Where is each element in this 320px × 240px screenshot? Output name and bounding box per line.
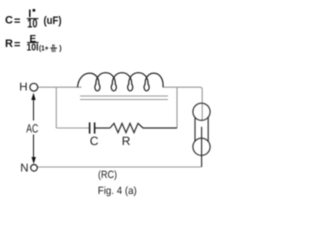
svg-text:(RC): (RC) — [98, 169, 117, 181]
svg-text:(uF): (uF) — [44, 15, 62, 27]
svg-text:=: = — [14, 39, 20, 51]
svg-text:10I: 10I — [27, 42, 39, 54]
svg-text:C: C — [90, 134, 99, 148]
svg-text:AC: AC — [26, 122, 38, 136]
svg-text:Fig. 4 (a): Fig. 4 (a) — [98, 185, 137, 197]
svg-text:50: 50 — [51, 48, 56, 53]
svg-text:=: = — [14, 15, 20, 27]
svg-text:10: 10 — [27, 18, 37, 30]
svg-text:(1+: (1+ — [39, 46, 49, 53]
svg-text:): ) — [59, 46, 61, 53]
svg-text:N: N — [20, 162, 28, 174]
svg-text:R: R — [5, 38, 13, 50]
svg-text:H: H — [19, 81, 27, 93]
svg-text:R: R — [122, 134, 131, 148]
svg-text:C: C — [5, 14, 13, 26]
